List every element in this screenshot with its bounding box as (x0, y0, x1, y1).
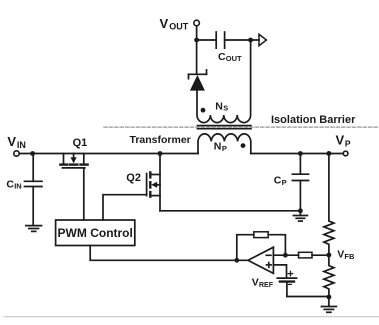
svg-text:Transformer: Transformer (130, 134, 191, 146)
node Cp ground junction (298, 208, 303, 213)
node divider junction on rail (326, 151, 331, 156)
wire main rail left segment (19, 153, 198, 155)
node COUT junction (248, 38, 253, 43)
wire battery return (287, 296, 329, 298)
svg-text:REF: REF (259, 282, 274, 289)
svg-text:P: P (222, 144, 227, 153)
op-amp U1 (248, 247, 273, 273)
wire main rail right segment (251, 153, 343, 155)
capacitor COUT (197, 32, 259, 48)
horizontal page rule (4, 316, 379, 318)
transistor Q2 (147, 154, 160, 211)
capacitor CP (292, 154, 308, 211)
ground (below CIN) (26, 226, 42, 232)
ground (below CP) (293, 211, 307, 221)
resistor R1 (upper divider) (324, 154, 334, 256)
op-amp minus input mark (266, 254, 271, 256)
resistor R3 (feedback box) (254, 232, 268, 238)
node divider bottom junction (327, 295, 332, 300)
terminal VOUT (194, 20, 200, 26)
wire minus input (273, 254, 329, 256)
node Q2 drain on rail (158, 151, 163, 156)
svg-text:OUT: OUT (226, 54, 242, 63)
node VFB (327, 253, 332, 258)
transistor Q1 (60, 154, 87, 168)
terminal VP (343, 151, 348, 156)
wire Q1 gate to PWM (83, 168, 85, 220)
ground (below divider) (321, 297, 336, 312)
svg-text:IN: IN (14, 182, 22, 191)
wire VOUT to diode (196, 40, 198, 74)
svg-text:C: C (218, 51, 226, 63)
svg-text:V: V (160, 16, 169, 31)
svg-text:V: V (337, 249, 344, 261)
load arrow (259, 34, 266, 45)
wire PWM output to op-amp (90, 246, 248, 261)
wire Q2 source to ground node (160, 210, 300, 212)
battery plus mark (288, 271, 292, 275)
node Ns phase dot (201, 108, 206, 113)
resistor R4 (input box) (299, 252, 313, 258)
node minus input junction (283, 253, 288, 258)
wire feedback loop (237, 235, 286, 261)
svg-text:V: V (336, 133, 345, 148)
node Cp junction on rail (298, 151, 303, 156)
wire node VOUT (196, 26, 198, 38)
resistor R2 (lower divider) (324, 255, 334, 297)
svg-text:PWM Control: PWM Control (58, 226, 133, 240)
wire Q2 gate to PWM (103, 195, 147, 220)
svg-text:FB: FB (344, 252, 355, 261)
node Np phase dot (241, 143, 246, 148)
transformer core (197, 126, 251, 129)
svg-text:V: V (252, 277, 259, 289)
svg-text:Isolation Barrier: Isolation Barrier (271, 114, 356, 126)
battery VREF (277, 278, 296, 296)
svg-text:C: C (6, 178, 14, 190)
node VIN junction (30, 151, 35, 156)
isolation barrier dashed line (104, 126, 379, 128)
terminal VIN (14, 151, 19, 156)
svg-text:N: N (214, 141, 222, 153)
transformer Ns winding (197, 42, 251, 123)
svg-text:N: N (215, 100, 223, 112)
svg-text:IN: IN (17, 140, 26, 150)
svg-text:V: V (7, 134, 16, 149)
node op-amp output junction (234, 258, 239, 263)
svg-text:Q1: Q1 (73, 137, 88, 149)
capacitor CIN (25, 154, 43, 226)
svg-text:OUT: OUT (169, 22, 189, 32)
transformer Np winding (198, 134, 251, 154)
battery minus mark (288, 283, 291, 285)
diode D1 (zener) (189, 70, 207, 91)
svg-text:P: P (282, 178, 287, 187)
op-amp plus input mark (266, 263, 271, 268)
svg-text:C: C (274, 175, 282, 187)
svg-text:S: S (223, 104, 228, 113)
PWM Control box (56, 220, 135, 246)
svg-text:Q2: Q2 (126, 172, 141, 184)
node VOUT junction (194, 38, 199, 43)
wire plus input (273, 265, 286, 278)
svg-text:P: P (345, 138, 351, 148)
